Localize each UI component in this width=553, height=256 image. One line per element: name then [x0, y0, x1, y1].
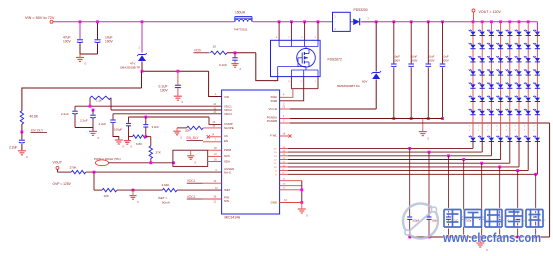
svg-text:1: 1: [506, 130, 508, 132]
svg-text:0: 0: [123, 145, 125, 149]
svg-text:2: 2: [506, 126, 508, 128]
capacitor bypass string 5: [480, 162, 483, 165]
svg-text:15: 15: [283, 178, 286, 180]
ground output caps: [422, 119, 424, 132]
svg-text:EN_DLY: EN_DLY: [187, 136, 200, 140]
resistor R2 10: [211, 51, 228, 54]
svg-text:200V: 200V: [393, 58, 400, 62]
capacitor bypass string 3: [447, 154, 450, 157]
wire VIN rail right of inductor: [253, 21, 333, 23]
led string 1: [472, 20, 475, 23]
svg-text:0: 0: [182, 100, 184, 104]
svg-text:NA-S: NA-S: [224, 170, 231, 174]
capacitor C5 0.1UF: [234, 53, 236, 57]
svg-text:VDC1: VDC1: [187, 195, 196, 199]
capacitor C14 3.3nF: [144, 116, 147, 119]
svg-text:100V: 100V: [63, 40, 72, 44]
capacitor C3 0.1uF 100V: [177, 70, 180, 73]
svg-text:270K: 270K: [70, 165, 77, 169]
wire zener to OVP pin 22: [280, 108, 290, 110]
svg-text:1: 1: [469, 130, 471, 132]
svg-text:1: 1: [496, 130, 498, 132]
led string 7: [527, 20, 530, 23]
svg-text:40.6K: 40.6K: [30, 115, 39, 119]
svg-text:10: 10: [213, 44, 217, 48]
svg-text:2: 2: [533, 126, 535, 128]
svg-text:1: 1: [215, 92, 217, 96]
wire LED1 bus: [280, 147, 288, 149]
svg-text:ISET: ISET: [224, 188, 231, 192]
svg-text:PWM: PWM: [224, 148, 232, 152]
capacitor C1 47uF 100V: [79, 22, 81, 39]
svg-text:2.2uF: 2.2uF: [9, 146, 17, 150]
svg-text:VDC1: VDC1: [187, 179, 196, 183]
wire gate drive: [227, 52, 256, 54]
svg-text:8: 8: [275, 174, 277, 176]
ground R6: [177, 127, 187, 129]
ground C13: [124, 140, 131, 142]
wire VDC1 line: [75, 105, 222, 107]
ground LED caps: [479, 237, 481, 243]
mosfet source wiring: [305, 67, 307, 71]
capacitor C11 2.2uF: [92, 109, 95, 112]
svg-text:8: 8: [276, 37, 278, 39]
svg-text:10K: 10K: [104, 194, 109, 198]
capacitor C13 100pF: [128, 117, 130, 123]
capacitor C10 2.2uF: [74, 106, 76, 110]
wire OVP divider: [86, 171, 222, 173]
wire source to SW pins: [290, 77, 292, 89]
ground C12: [115, 139, 123, 141]
resistor R9 4.64K: [162, 188, 177, 191]
wire LED3 bus: [280, 155, 288, 157]
capacitor bypass string 7: [516, 169, 519, 172]
wire SCK SDA ground loop: [173, 150, 208, 166]
svg-text:SWB: SWB: [270, 99, 277, 103]
wire GND pin 33: [280, 202, 302, 204]
svg-text:19: 19: [214, 153, 217, 156]
svg-text:3.3nF: 3.3nF: [152, 125, 160, 129]
svg-text:60V: 60V: [362, 80, 367, 84]
svg-text:18: 18: [283, 132, 286, 135]
svg-text:0: 0: [131, 145, 133, 149]
svg-text:28: 28: [214, 196, 217, 199]
mosfet Q1 symbol: [297, 49, 316, 68]
wire LED4 bus: [280, 159, 288, 161]
svg-text:16: 16: [283, 183, 286, 185]
wire LED6 bus: [280, 166, 288, 168]
svg-text:100V: 100V: [105, 40, 114, 44]
wire bottom ground rail: [410, 236, 550, 238]
wire main VIN rail: [53, 21, 234, 23]
svg-text:2: 2: [469, 126, 471, 128]
ground EN cap: [18, 150, 26, 152]
svg-text:1: 1: [315, 81, 317, 83]
svg-text:F WL: F WL: [270, 134, 277, 138]
svg-text:6.8K: 6.8K: [136, 142, 142, 146]
svg-text:1: 1: [478, 130, 480, 132]
wire VIN sense line: [142, 70, 209, 72]
led string 8: [536, 22, 538, 142]
wire PWM line: [109, 162, 173, 164]
svg-text:0: 0: [306, 214, 308, 218]
wire SWB: [280, 89, 304, 101]
svg-text:30: 30: [214, 180, 217, 183]
ground VDC caps: [89, 130, 97, 132]
capacitor bypass string 6: [498, 166, 501, 169]
svg-text:22: 22: [283, 105, 286, 108]
svg-text:20K: 20K: [185, 129, 190, 133]
wire VDC3 line: [113, 113, 222, 115]
svg-text:4.64K: 4.64K: [162, 183, 170, 187]
svg-text:744770151: 744770151: [234, 28, 248, 32]
svg-text:0: 0: [85, 62, 87, 66]
wire LED7 bus: [280, 170, 288, 172]
svg-text:17: 17: [283, 187, 286, 189]
transistor Q1 FDS2672 package box: [271, 40, 321, 76]
svg-text:6: 6: [301, 37, 303, 39]
svg-text:26: 26: [214, 158, 217, 161]
svg-text:0: 0: [137, 200, 139, 204]
svg-text:12: 12: [274, 160, 277, 162]
svg-text:MIC3414A: MIC3414A: [225, 215, 241, 219]
svg-text:0: 0: [240, 67, 242, 71]
wire VDC2 line: [111, 109, 222, 111]
svg-text:2: 2: [478, 126, 480, 128]
svg-text:200V: 200V: [442, 58, 449, 62]
wire LED2 bus: [280, 151, 288, 153]
svg-text:14: 14: [274, 152, 277, 154]
resistor R8 10K: [93, 172, 95, 190]
svg-text:100V: 100V: [160, 89, 169, 93]
svg-text:1: 1: [515, 130, 517, 132]
watermark logo circle: [403, 204, 438, 239]
svg-text:0: 0: [195, 160, 197, 164]
svg-text:NIN: NIN: [224, 199, 229, 203]
svg-text:24: 24: [214, 103, 217, 106]
wire LED5 bus: [280, 162, 288, 164]
IC U1 box: [222, 90, 280, 214]
svg-text:PGNDB: PGNDB: [267, 119, 277, 123]
TVS diode D1 SMAJ 47V: [141, 20, 144, 23]
svg-text:VO LE: VO LE: [268, 107, 277, 111]
svg-text:4: 4: [275, 81, 277, 83]
svg-text:0: 0: [98, 136, 100, 140]
svg-text:9: 9: [275, 171, 277, 173]
svg-text:0: 0: [181, 135, 183, 139]
node EN_DLY: [21, 131, 24, 134]
pin FWL no connect: [280, 135, 289, 137]
watermark chinese text: [444, 210, 543, 228]
wire drain pin stubs: [278, 20, 281, 23]
resistor R3 1.0k: [89, 98, 91, 106]
svg-text:34: 34: [212, 133, 215, 136]
wire cap bottoms: [80, 53, 98, 55]
svg-text:0: 0: [428, 137, 430, 141]
svg-text:VOUT: VOUT: [53, 160, 62, 164]
svg-text:27K: 27K: [156, 151, 161, 155]
svg-text:FDS2672: FDS2672: [328, 58, 342, 62]
resistor R7 270K: [71, 170, 86, 173]
svg-text:www.elecfans.com: www.elecfans.com: [442, 230, 541, 245]
wire soft start pins to ground: [280, 180, 302, 182]
svg-text:2: 2: [139, 47, 141, 50]
svg-text:4: 4: [283, 94, 285, 97]
terminal J2 VOUT: [472, 9, 475, 12]
ground IC: [301, 203, 303, 209]
capacitor bypass string 8: [534, 173, 537, 176]
terminal J1 VIN: [50, 20, 53, 23]
svg-text:VDC3: VDC3: [224, 112, 232, 116]
svg-text:0: 0: [486, 248, 488, 252]
capacitor C2 10uF 100V: [97, 22, 99, 39]
svg-text:EN_DLY: EN_DLY: [31, 128, 44, 132]
svg-text:ISET =: ISET =: [158, 196, 167, 200]
svg-text:SDA: SDA: [224, 159, 230, 163]
svg-text:200V: 200V: [411, 58, 418, 62]
mosfet internal wiring: [278, 40, 280, 46]
led string 4: [499, 20, 502, 23]
resistor R5 27K: [146, 136, 151, 138]
svg-text:5: 5: [315, 37, 317, 39]
capacitor bypass string 4: [462, 158, 465, 161]
svg-text:EN: EN: [224, 139, 228, 143]
svg-text:2: 2: [301, 81, 303, 83]
svg-text:2: 2: [283, 120, 285, 123]
svg-text:VDD: VDD: [194, 49, 202, 53]
svg-text:VOUT = 120V: VOUT = 120V: [479, 10, 502, 14]
wire PGNDB return: [280, 122, 290, 124]
svg-text:10: 10: [274, 167, 277, 169]
svg-text:200V: 200V: [428, 58, 435, 62]
wire VOUT rail: [362, 21, 538, 23]
led string 3: [490, 20, 493, 23]
svg-text:6: 6: [216, 169, 218, 172]
svg-text:2: 2: [524, 126, 526, 128]
svg-text:1: 1: [487, 130, 489, 132]
svg-text:13: 13: [274, 156, 277, 158]
zener D3 MMSZ5266BT 60V: [375, 20, 378, 23]
svg-text:OVP = 125V: OVP = 125V: [53, 182, 72, 186]
wire LED8 bus: [280, 173, 288, 175]
resistor R6 20K slope: [187, 126, 204, 129]
wire EN divider top: [22, 88, 142, 111]
svg-text:CK: CK: [224, 134, 228, 138]
resistor R1 40.6K: [20, 111, 23, 124]
svg-text:1: 1: [533, 130, 535, 132]
svg-text:MMSZ5266BT KG: MMSZ5266BT KG: [337, 84, 360, 88]
svg-text:7: 7: [288, 37, 290, 39]
svg-text:29: 29: [213, 121, 216, 124]
wire SWA: [280, 89, 293, 98]
led string 6: [518, 20, 521, 23]
svg-text:1: 1: [335, 16, 337, 19]
wire rail corner to last string: [536, 22, 538, 33]
svg-text:0: 0: [26, 155, 28, 159]
svg-text:SLOPE: SLOPE: [224, 126, 234, 130]
svg-text:11: 11: [274, 163, 277, 165]
svg-text:100pF: 100pF: [114, 128, 122, 132]
svg-text:2.2uF: 2.2uF: [99, 122, 107, 126]
svg-text:1: 1: [524, 130, 526, 132]
svg-text:2: 2: [368, 18, 370, 21]
component U2 PDS3200 sense box: [333, 12, 351, 31]
svg-text:150UH: 150UH: [235, 10, 246, 14]
ground OVP divider: [132, 189, 135, 192]
svg-text:28: 28: [214, 147, 217, 150]
svg-text:1.0k: 1.0k: [96, 98, 102, 102]
svg-text:33: 33: [284, 199, 287, 202]
wire to VIN pin: [209, 71, 222, 96]
svg-text:VIN = 50V to 72V: VIN = 50V to 72V: [25, 16, 55, 20]
capacitor bypass string 1: [408, 147, 411, 150]
svg-text:2: 2: [496, 126, 498, 128]
capacitor C12 2.2uF: [112, 114, 114, 120]
svg-text:2: 2: [335, 28, 337, 31]
svg-text:2.2uF: 2.2uF: [80, 119, 88, 123]
svg-text:3: 3: [288, 81, 290, 83]
svg-text:2: 2: [515, 126, 517, 128]
wire rail box to diode: [350, 21, 353, 23]
led string 5: [508, 20, 511, 23]
wire COMP line: [129, 116, 210, 118]
svg-text:30: 30: [213, 125, 216, 128]
svg-text:PDS3200: PDS3200: [354, 8, 368, 12]
ground input caps: [79, 54, 81, 58]
svg-text:VIN: VIN: [224, 95, 229, 99]
svg-text:GND: GND: [271, 201, 277, 205]
capacitor bypass string 2: [428, 151, 431, 154]
svg-text:2.2uF: 2.2uF: [61, 112, 69, 116]
resistor R4 6.8K: [133, 135, 147, 138]
svg-text:7: 7: [215, 139, 217, 142]
capacitor C4 2.2uF: [21, 132, 23, 140]
svg-text:0.1UF: 0.1UF: [219, 63, 227, 67]
svg-text:10: 10: [215, 187, 218, 190]
svg-text:60mA: 60mA: [162, 200, 170, 204]
led string 2: [481, 20, 484, 23]
svg-text:15: 15: [274, 148, 277, 150]
ground SCK SDA: [190, 150, 192, 155]
output capacitors C6-C9 10uF 200V: [392, 20, 395, 23]
svg-text:21: 21: [214, 200, 217, 203]
svg-text:4: 4: [283, 115, 285, 118]
svg-text:SMAJ5919B-TP: SMAJ5919B-TP: [120, 66, 140, 70]
wire PGNDA rail: [280, 118, 290, 120]
svg-text:2: 2: [487, 126, 489, 128]
svg-text:SCK: SCK: [224, 154, 230, 158]
